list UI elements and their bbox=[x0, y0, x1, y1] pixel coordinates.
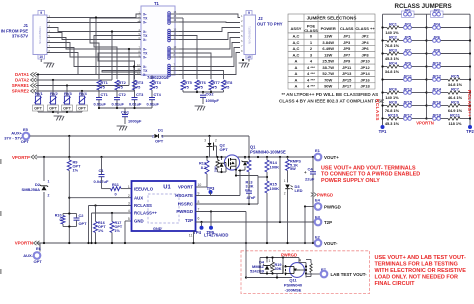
svg-text:AUX: AUX bbox=[134, 195, 143, 200]
svg-text:CLASS: CLASS bbox=[340, 26, 354, 31]
svg-text:30K: 30K bbox=[275, 267, 282, 271]
svg-text:RV1: RV1 bbox=[35, 91, 43, 96]
svg-text:8.2: 8.2 bbox=[201, 166, 206, 170]
svg-text:OPT: OPT bbox=[78, 107, 86, 111]
svg-text:13W: 13W bbox=[324, 34, 332, 39]
svg-text:TP4: TP4 bbox=[193, 230, 201, 235]
Q11 gate bars bbox=[282, 258, 284, 266]
svg-text:A: A bbox=[295, 83, 298, 88]
wire VOUT+ sense drop bbox=[279, 157, 281, 222]
svg-text:LOAD ONLY. NOT NEEDED FOR: LOAD ONLY. NOT NEEDED FOR bbox=[375, 274, 459, 280]
svg-text:TP2: TP2 bbox=[466, 129, 474, 134]
svg-text:VOUT+: VOUT+ bbox=[324, 155, 339, 160]
wire lab box bottom bbox=[246, 277, 292, 279]
gate network resistor bbox=[217, 157, 219, 160]
svg-text:CLASS 4 BY AN IEEE 802.3 AT CO: CLASS 4 BY AN IEEE 802.3 AT COMPLIANT PS… bbox=[279, 99, 384, 104]
svg-text:3: 3 bbox=[204, 139, 206, 143]
rclass left bus bbox=[382, 14, 384, 127]
wire T1 to J2 pin4 bbox=[179, 33, 240, 40]
svg-text:OPT: OPT bbox=[21, 139, 30, 144]
svg-text:0.047uF: 0.047uF bbox=[94, 179, 109, 184]
svg-text:JP1: JP1 bbox=[404, 7, 412, 12]
svg-text:749022016: 749022016 bbox=[147, 75, 169, 80]
svg-text:PWRGD: PWRGD bbox=[324, 205, 341, 210]
wire J1 pin2 to T1 bbox=[47, 22, 141, 24]
svg-text:JP11: JP11 bbox=[342, 65, 352, 70]
svg-text:PSMN040-100MSE: PSMN040-100MSE bbox=[250, 149, 286, 154]
wire AUX+ drop to VPORTP rail bbox=[68, 136, 70, 157]
transistor Q2 OPT bbox=[209, 136, 211, 143]
svg-text:RC2: RC2 bbox=[389, 35, 398, 40]
svg-text:AUX-: AUX- bbox=[23, 253, 33, 258]
resistor R12 8.2 bbox=[205, 161, 209, 175]
resistor RT5 75 bbox=[181, 80, 185, 90]
wire tap to RT8 bbox=[179, 71, 224, 80]
svg-text:A: A bbox=[295, 77, 298, 82]
svg-text:37V - 57V: 37V - 57V bbox=[4, 136, 22, 141]
test point TP4 bbox=[201, 222, 203, 228]
svg-text:OPT: OPT bbox=[79, 221, 88, 226]
svg-text:D1: D1 bbox=[158, 128, 164, 133]
wire T1 to J2 pin6 bbox=[179, 43, 240, 58]
svg-text:E5: E5 bbox=[23, 127, 29, 132]
svg-text:2: 2 bbox=[152, 135, 154, 139]
zener D2 SMBJ58A bbox=[43, 157, 45, 181]
svg-text:J2: J2 bbox=[258, 16, 263, 21]
svg-text:1%: 1% bbox=[98, 229, 104, 233]
svg-text:JP2: JP2 bbox=[361, 34, 369, 39]
svg-text:0: 0 bbox=[115, 191, 117, 196]
connector J1 box bbox=[33, 15, 47, 55]
test point TP3 bbox=[196, 195, 241, 197]
svg-text:25.5W: 25.5W bbox=[322, 59, 334, 64]
svg-text:VPORTN: VPORTN bbox=[15, 241, 33, 246]
table header row bbox=[288, 22, 375, 34]
svg-text:38.7W: 38.7W bbox=[322, 65, 334, 70]
rail T2P bbox=[196, 221, 315, 223]
svg-text:1: 1 bbox=[48, 180, 50, 184]
svg-text:JP18: JP18 bbox=[360, 83, 370, 88]
resistor RT4 75 bbox=[150, 80, 154, 90]
svg-text:2: 2 bbox=[48, 194, 50, 198]
svg-text:CLASS ++: CLASS ++ bbox=[355, 26, 375, 31]
wire tap to RT5 bbox=[179, 17, 183, 19]
svg-text:POWER SUPPLY ONLY: POWER SUPPLY ONLY bbox=[321, 178, 380, 184]
svg-text:OPT: OPT bbox=[220, 147, 229, 152]
svg-text:RC3: RC3 bbox=[389, 48, 398, 53]
svg-text:HSSRC: HSSRC bbox=[178, 202, 194, 207]
rclass row JP9/JP10 bbox=[383, 66, 388, 68]
svg-text:C1: C1 bbox=[99, 168, 105, 173]
svg-text:GND: GND bbox=[134, 219, 144, 224]
svg-text:0: 0 bbox=[59, 218, 61, 222]
rclass right bus bbox=[469, 14, 471, 127]
wire T1 to J2 pin1 bbox=[179, 14, 240, 18]
RV ground bus bbox=[37, 110, 39, 113]
svg-text:1: 1 bbox=[284, 179, 286, 183]
page edge marks bbox=[0, 159, 2, 164]
svg-text:11: 11 bbox=[189, 234, 193, 238]
rail AUX+ y136 bbox=[30, 135, 153, 137]
lab box bottom bar bbox=[260, 273, 283, 275]
rclass row JP7/JP8 bbox=[383, 53, 388, 55]
svg-text:RC9: RC9 bbox=[451, 100, 460, 105]
wire PWRGD pin7 bbox=[196, 211, 247, 213]
rclass row JP17/JP18 bbox=[383, 118, 388, 120]
resistor RT3 75 bbox=[133, 80, 137, 90]
resistor R13 3.3K bbox=[248, 157, 250, 160]
capacitor CT2 0.01uF bbox=[116, 90, 118, 97]
svg-text:3.84W: 3.84W bbox=[322, 40, 334, 45]
wire T1 to J2 pin3 bbox=[179, 28, 240, 32]
svg-text:9: 9 bbox=[248, 11, 250, 15]
wire T1 tap2 to RT2 bbox=[94, 36, 141, 80]
resistor R17 OPT bbox=[111, 213, 113, 222]
svg-text:4 ***: 4 *** bbox=[307, 83, 315, 88]
svg-text:0.01uF: 0.01uF bbox=[94, 102, 107, 107]
svg-text:13W: 13W bbox=[324, 52, 332, 57]
test point TP5 bbox=[210, 212, 212, 228]
resistor RT1 75 bbox=[97, 80, 101, 90]
wire tap to RT7 bbox=[179, 53, 211, 79]
svg-text:JP6: JP6 bbox=[361, 46, 369, 51]
resistor R9 OPT bbox=[68, 157, 70, 160]
svg-text:1000pF: 1000pF bbox=[128, 119, 142, 124]
svg-text:RC10: RC10 bbox=[388, 113, 398, 118]
svg-text:A,C: A,C bbox=[293, 40, 300, 45]
svg-text:2: 2 bbox=[128, 194, 130, 198]
wire T1 tap1 to RT1 bbox=[90, 18, 141, 79]
zener D4 MMBZ5242B9 bbox=[266, 258, 268, 263]
svg-text:R12: R12 bbox=[199, 162, 206, 166]
resistor RMPS 5.1K 5W bbox=[287, 157, 289, 160]
svg-text:C2: C2 bbox=[79, 213, 85, 218]
transformer T1 box bbox=[141, 6, 175, 75]
svg-text:RC4: RC4 bbox=[389, 61, 398, 66]
wire T1 to J2 pin5 bbox=[179, 38, 240, 50]
svg-text:37V-57V: 37V-57V bbox=[12, 34, 28, 39]
capacitor C1 0.047uF bbox=[101, 157, 103, 175]
svg-text:JP1: JP1 bbox=[343, 34, 351, 39]
dashed lab test box bbox=[241, 251, 370, 294]
svg-text:CT3: CT3 bbox=[136, 92, 144, 97]
resistor RT2 75 bbox=[115, 80, 119, 90]
rclass mid bus bbox=[426, 14, 428, 118]
transistor Q11 PSMN040-100MSE bbox=[290, 263, 305, 278]
svg-text:JP5: JP5 bbox=[343, 46, 351, 51]
gate network zener bbox=[221, 157, 223, 160]
rclass row JP11/JP12 bbox=[383, 79, 404, 81]
wire T1 to J2 pin8 bbox=[179, 53, 240, 75]
svg-text:118 1%: 118 1% bbox=[449, 121, 463, 126]
capacitor CT3 0.01uF bbox=[134, 90, 136, 97]
svg-text:A: A bbox=[295, 59, 298, 64]
svg-text:10: 10 bbox=[39, 55, 43, 59]
wire J1 pin1 to T1 bbox=[47, 14, 141, 18]
svg-text:MX-GRABBER1: MX-GRABBER1 bbox=[39, 26, 42, 44]
op-amp U1 LT4276AIDD box bbox=[132, 181, 196, 231]
rclass row JP3/JP4 bbox=[383, 27, 388, 29]
svg-text:JP9: JP9 bbox=[343, 59, 351, 64]
svg-text:4 ***: 4 *** bbox=[307, 65, 315, 70]
svg-text:JP10: JP10 bbox=[360, 59, 370, 64]
capacitor C3 47nF bbox=[248, 172, 250, 191]
svg-text:A,C: A,C bbox=[293, 34, 300, 39]
rclass row JP5/JP6 bbox=[383, 40, 388, 42]
rail VOUT- y243 bbox=[37, 242, 315, 244]
svg-text:100K: 100K bbox=[213, 166, 217, 172]
resistor R15 100K bbox=[265, 181, 269, 193]
svg-text:ASSY: ASSY bbox=[291, 26, 302, 31]
connector J2 box bbox=[244, 15, 256, 55]
svg-text:R10: R10 bbox=[55, 214, 62, 218]
svg-text:PWRGD: PWRGD bbox=[176, 209, 193, 214]
svg-text:GND': GND' bbox=[153, 227, 162, 231]
svg-text:TP1: TP1 bbox=[379, 129, 387, 134]
svg-text:JP15: JP15 bbox=[342, 77, 352, 82]
svg-text:OPT: OPT bbox=[34, 107, 42, 111]
wire R14 junction bbox=[258, 176, 267, 178]
svg-text:22uF: 22uF bbox=[305, 177, 315, 182]
svg-text:RC5: RC5 bbox=[451, 74, 460, 79]
svg-text:E1: E1 bbox=[315, 148, 321, 153]
svg-text:1: 1 bbox=[128, 185, 130, 189]
svg-text:JP12: JP12 bbox=[360, 65, 370, 70]
svg-text:JP3: JP3 bbox=[343, 40, 351, 45]
svg-text:RC8: RC8 bbox=[389, 100, 398, 105]
svg-text:T2P: T2P bbox=[185, 218, 193, 223]
svg-text:10: 10 bbox=[247, 55, 251, 59]
svg-text:52.7W: 52.7W bbox=[322, 71, 334, 76]
svg-text:1: 1 bbox=[269, 259, 271, 263]
table data rows bbox=[288, 33, 375, 39]
net label PWRGD with chevron bbox=[311, 193, 317, 197]
wire J1 pin5 to T1 bbox=[47, 38, 141, 50]
wire RCLASS pin3 left drop bbox=[89, 205, 132, 207]
capacitor CT1 0.01uF bbox=[98, 90, 100, 97]
wire R9 to AUX pin bbox=[69, 197, 131, 199]
svg-text:OPT: OPT bbox=[34, 259, 43, 264]
svg-text:+: + bbox=[304, 170, 307, 175]
wire J1 pin6 to T1 bbox=[47, 43, 141, 58]
svg-text:SMBJ58A: SMBJ58A bbox=[22, 187, 41, 192]
svg-text:RC6: RC6 bbox=[389, 87, 398, 92]
svg-text:4: 4 bbox=[299, 259, 301, 263]
svg-text:CLASS: CLASS bbox=[304, 28, 318, 33]
svg-text:JP4: JP4 bbox=[361, 40, 369, 45]
svg-text:JP2: JP2 bbox=[433, 7, 441, 12]
varistor RV2 bbox=[52, 80, 54, 96]
rail VPORTP y157 bbox=[37, 156, 315, 158]
svg-text:TP3: TP3 bbox=[207, 186, 215, 191]
svg-text:JUMPER SELECTIONS: JUMPER SELECTIONS bbox=[307, 16, 357, 21]
svg-text:TP5: TP5 bbox=[207, 230, 215, 235]
R10/C2 bars bbox=[63, 213, 77, 215]
wire HSGATE to Q1 gate bbox=[239, 171, 241, 196]
svg-text:IEEUVLO: IEEUVLO bbox=[134, 186, 154, 191]
svg-text:POWER: POWER bbox=[321, 26, 336, 31]
svg-text:RC7: RC7 bbox=[451, 87, 459, 92]
wire J1 pin8 to T1 bbox=[47, 53, 141, 75]
wire E4 drop bbox=[304, 207, 306, 244]
svg-text:OPT: OPT bbox=[155, 139, 164, 144]
svg-text:JP13: JP13 bbox=[342, 71, 352, 76]
svg-text:A: A bbox=[295, 65, 298, 70]
svg-text:1%: 1% bbox=[115, 229, 121, 233]
resistor RT8 75 bbox=[222, 80, 226, 90]
test point TP1 bbox=[381, 125, 385, 129]
svg-text:RV3: RV3 bbox=[64, 91, 72, 96]
svg-text:100K: 100K bbox=[270, 186, 280, 191]
svg-text:LED: LED bbox=[295, 188, 303, 193]
svg-text:VPORT: VPORT bbox=[178, 185, 193, 190]
svg-text:5W: 5W bbox=[290, 167, 296, 171]
svg-text:1000pF: 1000pF bbox=[206, 98, 220, 103]
wire J1 pin4 to T1 bbox=[47, 33, 141, 40]
svg-text:CT4: CT4 bbox=[154, 92, 162, 97]
wire PWRGD drop into box bbox=[245, 212, 247, 278]
svg-text:U1: U1 bbox=[163, 185, 171, 191]
wire GND pin5 drop bbox=[125, 220, 132, 222]
ground below J1 bbox=[40, 59, 42, 62]
svg-text:USE VOUT+ AND VOUT- TERMINALS: USE VOUT+ AND VOUT- TERMINALS bbox=[321, 166, 416, 172]
svg-text:JP16: JP16 bbox=[360, 77, 370, 82]
svg-text:90W: 90W bbox=[324, 83, 332, 88]
capacitor C2 OPT bbox=[76, 214, 78, 218]
svg-text:JP17: JP17 bbox=[342, 83, 352, 88]
svg-text:E4: E4 bbox=[315, 198, 321, 203]
svg-text:A,C: A,C bbox=[293, 52, 300, 57]
svg-text:6: 6 bbox=[198, 217, 200, 221]
svg-text:CT2: CT2 bbox=[119, 92, 127, 97]
resistor R14 100K bbox=[266, 157, 268, 160]
svg-text:34.8 1%: 34.8 1% bbox=[385, 69, 400, 74]
svg-text:3: 3 bbox=[128, 202, 130, 206]
svg-text:VPORTN: VPORTN bbox=[416, 121, 433, 126]
svg-text:OUT TO PHY: OUT TO PHY bbox=[257, 22, 283, 27]
LED D3 bbox=[285, 185, 290, 189]
rclass row JP13/JP14 bbox=[383, 92, 388, 94]
svg-text:** AN LTPOE++ PD WILL BE CLAS: ** AN LTPOE++ PD WILL BE CLASSIFIED AS bbox=[282, 92, 379, 97]
wire T1 to J2 pin7 bbox=[179, 48, 240, 67]
svg-text:5242B9: 5242B9 bbox=[250, 269, 265, 274]
svg-text:DATA1: DATA1 bbox=[15, 72, 30, 77]
svg-text:JP14: JP14 bbox=[360, 71, 370, 76]
svg-text:OPT: OPT bbox=[49, 107, 57, 111]
svg-text:100K: 100K bbox=[270, 165, 280, 170]
svg-text:2: 2 bbox=[284, 192, 286, 196]
svg-text:RCLASS: RCLASS bbox=[375, 99, 380, 121]
svg-text:0.01uF: 0.01uF bbox=[147, 102, 160, 107]
resistor R10 bbox=[62, 214, 64, 216]
lab box top bar bbox=[260, 257, 299, 259]
svg-text:C4: C4 bbox=[308, 167, 314, 172]
svg-text:CG1: CG1 bbox=[121, 110, 130, 115]
varistor RV3 bbox=[66, 86, 68, 97]
svg-text:FINAL CIRCUIT: FINAL CIRCUIT bbox=[375, 281, 416, 287]
svg-text:4 ***: 4 *** bbox=[307, 77, 315, 82]
test point TP2 bbox=[468, 125, 472, 129]
svg-text:RCLASS++: RCLASS++ bbox=[467, 90, 472, 117]
svg-text:T2P: T2P bbox=[324, 220, 332, 225]
ground below J2 bbox=[248, 59, 250, 62]
wire T1 tap3 to RT3 bbox=[98, 53, 141, 79]
resistor RT7 75 bbox=[209, 80, 213, 90]
svg-text:70W: 70W bbox=[324, 77, 332, 82]
svg-text:WITH ELECTRONIC OR RESISTIVE: WITH ELECTRONIC OR RESISTIVE bbox=[375, 268, 467, 274]
svg-text:A: A bbox=[295, 71, 298, 76]
svg-text:CG2: CG2 bbox=[206, 92, 215, 97]
capacitor CT4 0.01uF bbox=[151, 90, 153, 97]
svg-text:DATA2: DATA2 bbox=[15, 78, 30, 83]
table JUMPER SELECTIONS title bbox=[288, 14, 375, 22]
svg-text:VOUT-: VOUT- bbox=[324, 241, 338, 246]
resistor R11 0 bbox=[102, 188, 111, 190]
RT5-8 ground bus bbox=[183, 91, 224, 93]
wire HSSRC pin8 bbox=[196, 203, 259, 205]
svg-text:TERMINALS FOR LAB TESTING: TERMINALS FOR LAB TESTING bbox=[375, 261, 458, 267]
svg-text:A,C: A,C bbox=[293, 46, 300, 51]
svg-text:RC11: RC11 bbox=[450, 113, 461, 118]
svg-text:OPT: OPT bbox=[63, 107, 71, 111]
svg-text:J1: J1 bbox=[23, 23, 28, 28]
resistor R19 30K bbox=[272, 258, 274, 263]
svg-text:MX-GRABBER1: MX-GRABBER1 bbox=[249, 26, 252, 44]
varistor RV4 bbox=[81, 91, 83, 96]
svg-text:4: 4 bbox=[128, 209, 130, 213]
svg-text:LAB TEST VOUT-: LAB TEST VOUT- bbox=[331, 272, 368, 277]
svg-text:-100MSE: -100MSE bbox=[285, 288, 302, 293]
gate clamp right of Q1 bbox=[244, 157, 246, 159]
svg-text:T1: T1 bbox=[154, 1, 160, 6]
wire rclass top row bbox=[383, 13, 402, 15]
svg-text:0.01uF: 0.01uF bbox=[112, 102, 125, 107]
svg-text:RCLASS: RCLASS bbox=[134, 203, 152, 208]
varistor RV1 bbox=[37, 75, 39, 97]
transistor Q1 PSMN040-100MSE bbox=[224, 155, 239, 170]
terminal E6 AUX- bbox=[39, 243, 41, 252]
resistor R16 OPT bbox=[95, 206, 97, 222]
svg-text:1%: 1% bbox=[73, 168, 79, 173]
svg-text:TO CONNECT TO A PWRGD ENABLED: TO CONNECT TO A PWRGD ENABLED bbox=[321, 172, 420, 178]
jumper JP1 bbox=[402, 11, 415, 17]
svg-text:E6: E6 bbox=[36, 246, 42, 251]
wire J1 pin7 to T1 bbox=[47, 48, 141, 67]
Q11 source network bbox=[300, 269, 306, 271]
capacitor C4 22uF bbox=[312, 157, 314, 172]
svg-text:5: 5 bbox=[128, 217, 130, 221]
svg-text:0.01uF: 0.01uF bbox=[129, 102, 142, 107]
wire T1 tap4 to RT4 bbox=[102, 71, 152, 80]
svg-text:RV2: RV2 bbox=[50, 91, 58, 96]
svg-text:6.49W: 6.49W bbox=[322, 46, 334, 51]
wire tap to RT6 bbox=[179, 36, 197, 80]
svg-text:SPARE2: SPARE2 bbox=[12, 89, 30, 94]
wire J1 pin3 to T1 bbox=[47, 28, 141, 32]
CT ground bus bbox=[99, 107, 152, 109]
resistor RT6 75 bbox=[195, 80, 199, 90]
svg-text:SPARE1: SPARE1 bbox=[12, 83, 30, 88]
svg-text:2: 2 bbox=[215, 139, 217, 143]
wire T1 to J2 pin2 bbox=[179, 21, 240, 24]
svg-text:RC1: RC1 bbox=[389, 22, 398, 27]
wire VPORT pin10 bbox=[196, 186, 208, 188]
jumper JP2 bbox=[431, 11, 444, 17]
rclass row JP15/JP16 bbox=[383, 105, 388, 107]
svg-text:USE VOUT+ AND LAB TEST VOUT-: USE VOUT+ AND LAB TEST VOUT- bbox=[375, 255, 466, 261]
svg-text:4 ***: 4 *** bbox=[307, 71, 315, 76]
svg-text:CT1: CT1 bbox=[101, 92, 109, 97]
